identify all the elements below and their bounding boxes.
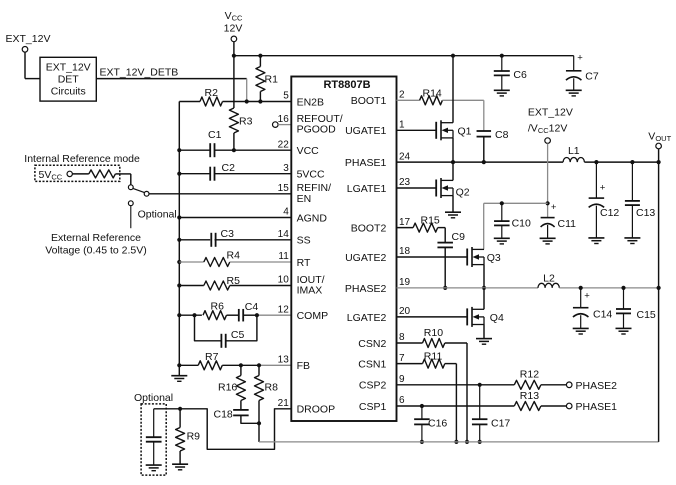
capacitor C10 bbox=[501, 203, 503, 221]
switch contact to REFIN bbox=[144, 191, 149, 196]
svg-text:Optional: Optional bbox=[134, 392, 173, 404]
ground C7 bbox=[566, 89, 582, 91]
wire top 12V rail bbox=[234, 55, 574, 57]
svg-text:R14: R14 bbox=[423, 87, 442, 99]
terminal PHASE2 bbox=[566, 382, 572, 388]
wire AGND line bbox=[179, 217, 291, 219]
svg-text:PGOOD: PGOOD bbox=[297, 124, 337, 136]
resistor R3 bbox=[229, 108, 238, 133]
ground C6 bbox=[494, 89, 510, 91]
wire R10 to rail bbox=[445, 342, 467, 344]
wire Vcc down to R3 bbox=[233, 56, 235, 108]
svg-text:C17: C17 bbox=[491, 417, 510, 429]
capacitor C8 bbox=[477, 130, 492, 132]
svg-text:C15: C15 bbox=[637, 309, 656, 321]
svg-text:14: 14 bbox=[278, 229, 290, 240]
op-amp U1 RT8807B body bbox=[291, 77, 396, 422]
svg-text:Optional: Optional bbox=[138, 209, 177, 221]
inductor L2 bbox=[538, 283, 559, 288]
node bus/RT junction bbox=[177, 260, 181, 264]
wire IOUT right bbox=[230, 285, 291, 287]
wire VCC line bbox=[179, 149, 210, 151]
node R8/C18 junction bbox=[257, 421, 261, 425]
capacitor optional bbox=[153, 409, 155, 437]
wire PHASE2 bbox=[397, 287, 539, 289]
transistor Q3 bbox=[466, 249, 468, 266]
resistor R4 bbox=[204, 258, 230, 267]
svg-text:C13: C13 bbox=[636, 207, 655, 219]
svg-text:7: 7 bbox=[399, 353, 405, 364]
svg-text:DET: DET bbox=[58, 74, 80, 86]
node Q1/PHASE1 junction bbox=[451, 160, 455, 164]
node DROOP/R9 junction bbox=[178, 407, 182, 411]
resistor R6 bbox=[203, 311, 227, 320]
svg-text:+: + bbox=[584, 291, 590, 302]
svg-text:C10: C10 bbox=[512, 218, 531, 230]
node Q1 drain/rail junction bbox=[451, 54, 455, 58]
svg-text:16: 16 bbox=[278, 114, 290, 125]
svg-text:EXT_12V_DETB: EXT_12V_DETB bbox=[100, 67, 179, 79]
wire to switch bbox=[115, 173, 130, 175]
wire CSP1 bbox=[397, 405, 515, 407]
svg-text:17: 17 bbox=[399, 217, 411, 228]
svg-text:LGATE1: LGATE1 bbox=[347, 183, 387, 195]
node CSP2/C17 junction bbox=[478, 383, 482, 387]
wire bbox=[233, 42, 235, 56]
capacitor C17 bbox=[479, 385, 481, 419]
wire external ref stub bbox=[130, 206, 132, 229]
node R3/VCC junction bbox=[232, 148, 236, 152]
svg-text:C14: C14 bbox=[593, 308, 612, 320]
svg-text:C1: C1 bbox=[208, 129, 222, 141]
svg-text:PHASE2: PHASE2 bbox=[345, 283, 387, 295]
resistor R8 bbox=[258, 365, 260, 375]
node bus/5VCC junction bbox=[177, 172, 181, 176]
wire bbox=[24, 52, 26, 79]
svg-text:EXT_12V: EXT_12V bbox=[6, 33, 51, 45]
svg-text:6: 6 bbox=[399, 395, 405, 406]
svg-text:PHASE2: PHASE2 bbox=[576, 380, 618, 392]
node C8/PHASE1 junction bbox=[482, 160, 486, 164]
node R11/rail junction bbox=[454, 440, 458, 444]
resistor R1 bbox=[259, 56, 261, 67]
capacitor C7 bbox=[573, 56, 575, 71]
wire Q1 source bbox=[452, 138, 454, 162]
wire EXT_12V drop bbox=[547, 143, 549, 217]
node C6/rail junction bbox=[500, 54, 504, 58]
svg-text:24: 24 bbox=[399, 151, 411, 162]
svg-text:C4: C4 bbox=[245, 301, 259, 313]
svg-text:R6: R6 bbox=[211, 301, 225, 313]
wire L1 to VOUT bbox=[584, 161, 658, 163]
node C13/VOUT junction bbox=[630, 160, 634, 164]
wire R6-C4 bbox=[227, 314, 239, 316]
svg-text:C2: C2 bbox=[222, 162, 236, 174]
svg-text:R11: R11 bbox=[424, 350, 443, 362]
node L2/right rail junction bbox=[657, 286, 661, 290]
svg-text:UGATE2: UGATE2 bbox=[345, 252, 386, 264]
terminal EXT_12V/Vcc12V bbox=[545, 138, 551, 144]
svg-text:R16: R16 bbox=[218, 381, 237, 393]
wire sense rail bbox=[259, 441, 659, 443]
wire CSN1 lead bbox=[397, 363, 423, 365]
svg-text:R12: R12 bbox=[520, 368, 539, 380]
wire Q3 source bbox=[483, 265, 485, 288]
ground C11 bbox=[540, 237, 556, 239]
ground C15 bbox=[616, 327, 632, 329]
node COMP/C5 right junction bbox=[255, 313, 259, 317]
svg-text:C11: C11 bbox=[558, 218, 577, 230]
svg-text:RT: RT bbox=[297, 257, 311, 269]
svg-text:CSN2: CSN2 bbox=[358, 338, 386, 350]
wire Q2 source bbox=[452, 196, 454, 212]
svg-text:R7: R7 bbox=[205, 351, 219, 363]
ground C10 bbox=[494, 237, 510, 239]
ground R9 bbox=[172, 463, 188, 465]
wire UGATE1 lead bbox=[397, 129, 437, 131]
node C9/PHASE2 junction bbox=[443, 286, 447, 290]
capacitor C9 bbox=[437, 242, 453, 244]
wire AGND bus bbox=[178, 102, 180, 366]
svg-text:C6: C6 bbox=[513, 69, 527, 81]
wire C4-COMP bbox=[243, 314, 257, 316]
capacitor C14 bbox=[580, 288, 582, 308]
capacitor C11 bbox=[541, 217, 555, 219]
inductor L1 bbox=[563, 158, 584, 163]
capacitor C4 bbox=[238, 309, 240, 322]
svg-text:20: 20 bbox=[399, 306, 411, 317]
node bus/COMP junction bbox=[177, 313, 181, 317]
svg-text:SS: SS bbox=[297, 235, 311, 247]
wire VOUT right rail bbox=[658, 149, 660, 442]
node bus/IOUT junction bbox=[177, 283, 181, 287]
node bus/VCC junction bbox=[177, 148, 181, 152]
node bus/FB junction bbox=[177, 363, 181, 367]
svg-text:EN2B: EN2B bbox=[297, 96, 324, 108]
svg-text:22: 22 bbox=[278, 139, 290, 150]
svg-text:CSP2: CSP2 bbox=[359, 380, 387, 392]
node EXT rail/C11 junction bbox=[546, 201, 550, 205]
wire bbox=[72, 173, 88, 175]
wire R11 to rail bbox=[445, 363, 457, 365]
svg-text:EXT_12V: EXT_12V bbox=[46, 62, 91, 74]
svg-text:C3: C3 bbox=[221, 228, 235, 240]
capacitor C12 bbox=[595, 162, 597, 198]
svg-text:External Reference: External Reference bbox=[51, 232, 141, 244]
svg-text:+: + bbox=[600, 182, 606, 193]
svg-text:R2: R2 bbox=[205, 87, 219, 99]
ground C12 bbox=[588, 237, 604, 239]
wire EXT_12V_DETB bbox=[96, 78, 246, 80]
wire IOUT left bbox=[179, 285, 204, 287]
capacitor C2 bbox=[209, 167, 211, 181]
svg-text:IMAX: IMAX bbox=[297, 285, 323, 297]
resistor R14 bbox=[420, 96, 443, 105]
svg-text:R4: R4 bbox=[227, 249, 241, 261]
node R1/EN2B junction bbox=[258, 99, 262, 103]
node bus/AGND junction bbox=[177, 215, 181, 219]
terminal EXT_12V bbox=[22, 47, 28, 53]
wire COMP left bbox=[179, 314, 202, 316]
wire CSP2 bbox=[397, 384, 515, 386]
svg-text:9: 9 bbox=[399, 374, 405, 385]
node Vcc rail junction bbox=[232, 54, 236, 58]
resistor R2 bbox=[200, 97, 223, 106]
wire R3 to VCC pin line bbox=[233, 133, 235, 150]
resistor R9 bbox=[179, 409, 181, 428]
svg-text:12V: 12V bbox=[224, 23, 243, 35]
wire LGATE1 lead bbox=[397, 187, 437, 189]
resistor R16 bbox=[240, 365, 242, 375]
svg-text:C16: C16 bbox=[428, 417, 447, 429]
capacitor C16 bbox=[421, 406, 423, 419]
resistor R10 bbox=[423, 339, 445, 348]
svg-text:Internal Reference mode: Internal Reference mode bbox=[24, 153, 140, 165]
wire Q4 drain bbox=[483, 288, 485, 309]
node VOUT/L1 junction bbox=[657, 160, 661, 164]
node bus/SS junction bbox=[177, 238, 181, 242]
capacitor C3 bbox=[210, 233, 212, 247]
wire CSN2 lead bbox=[397, 342, 423, 344]
node C14/L2out junction bbox=[579, 286, 583, 290]
wire 5VCC line bbox=[179, 173, 210, 175]
node Q3/PHASE2 junction bbox=[482, 286, 486, 290]
wire C18 bottom bbox=[241, 415, 259, 423]
wire Q2 drain bbox=[452, 162, 454, 180]
transistor Q2 bbox=[435, 180, 437, 197]
svg-text:L1: L1 bbox=[568, 145, 580, 157]
ground C14 bbox=[573, 327, 589, 329]
wire REFIN/EN bbox=[149, 193, 291, 195]
capacitor C5 bbox=[220, 334, 222, 348]
wire SS line bbox=[179, 239, 210, 241]
wire C9 to PHASE2 bbox=[444, 247, 446, 288]
svg-text:C12: C12 bbox=[600, 207, 619, 219]
dashed box internal reference bbox=[35, 165, 120, 181]
svg-text:4: 4 bbox=[283, 207, 289, 218]
svg-text:CSP1: CSP1 bbox=[359, 401, 387, 413]
resistor R5 bbox=[204, 281, 230, 290]
svg-text:EXT_12V: EXT_12V bbox=[528, 107, 573, 119]
wire UGATE2 lead bbox=[397, 256, 468, 258]
svg-text:PHASE1: PHASE1 bbox=[576, 401, 618, 413]
switch blade bbox=[133, 188, 145, 192]
wire R15 to C9 bbox=[438, 227, 446, 229]
block EXT_12V DET Circuits bbox=[40, 57, 96, 101]
wire L2 to right rail bbox=[559, 287, 658, 289]
wire RT right bbox=[230, 261, 291, 263]
ground C13 bbox=[624, 237, 640, 239]
svg-text:Circuits: Circuits bbox=[51, 86, 86, 98]
wire Q3 drain drop bbox=[483, 203, 485, 249]
wire Q4 source bbox=[483, 325, 485, 339]
wire RT left bbox=[179, 261, 204, 263]
svg-text:CSN1: CSN1 bbox=[358, 359, 386, 371]
svg-text:+: + bbox=[577, 52, 583, 63]
wire EXT_12V_DETB drop bbox=[246, 79, 248, 102]
node C16/rail junction bbox=[420, 440, 424, 444]
capacitor C18 bbox=[233, 409, 249, 411]
node EN2B junction bbox=[245, 99, 249, 103]
svg-text:UGATE1: UGATE1 bbox=[345, 125, 386, 137]
svg-text:R15: R15 bbox=[421, 214, 440, 226]
svg-text:R3: R3 bbox=[239, 116, 253, 128]
wire R13 to terminal bbox=[541, 405, 567, 407]
wire C5 branch bbox=[195, 315, 222, 341]
svg-text:LGATE2: LGATE2 bbox=[347, 312, 387, 324]
wire DROOP path bbox=[154, 409, 292, 450]
svg-text:R13: R13 bbox=[520, 390, 539, 402]
ground Q4 bbox=[476, 338, 492, 340]
svg-text:18: 18 bbox=[399, 246, 411, 257]
svg-text:EN: EN bbox=[297, 193, 312, 205]
node EXT rail/C10 junction bbox=[500, 201, 504, 205]
svg-text:VCC: VCC bbox=[297, 145, 320, 157]
resistor R15 bbox=[413, 223, 438, 232]
svg-text:19: 19 bbox=[399, 277, 411, 288]
svg-text:L2: L2 bbox=[543, 272, 555, 284]
svg-text:AGND: AGND bbox=[297, 212, 328, 224]
svg-text:FB: FB bbox=[297, 360, 310, 372]
wire LGATE2 lead bbox=[397, 316, 468, 318]
svg-text:2: 2 bbox=[399, 90, 405, 101]
svg-text:C18: C18 bbox=[214, 409, 233, 421]
dashed box optional cap bbox=[141, 404, 166, 475]
svg-text:8: 8 bbox=[399, 332, 405, 343]
switch pivot bbox=[128, 185, 133, 190]
svg-text:15: 15 bbox=[278, 183, 290, 194]
wire C8 to PHASE1 bbox=[483, 137, 485, 163]
wire to sense rail bbox=[258, 423, 260, 442]
capacitor C6 bbox=[501, 56, 503, 71]
resistor R11 bbox=[423, 359, 445, 368]
node R10/rail junction bbox=[465, 440, 469, 444]
svg-text:Q2: Q2 bbox=[456, 187, 470, 199]
svg-text:Voltage (0.45 to 2.5V): Voltage (0.45 to 2.5V) bbox=[45, 244, 147, 256]
resistor R13 bbox=[514, 402, 541, 411]
capacitor C15 bbox=[623, 288, 625, 309]
svg-text:R9: R9 bbox=[187, 431, 201, 443]
wire FB right bbox=[259, 364, 291, 366]
resistor R12 bbox=[514, 380, 541, 389]
svg-text:RT8807B: RT8807B bbox=[323, 79, 370, 91]
node C17/rail junction bbox=[478, 440, 482, 444]
wire R14 to C8 bbox=[442, 99, 483, 101]
svg-text:R10: R10 bbox=[424, 327, 443, 339]
svg-text:C8: C8 bbox=[495, 129, 509, 141]
node FB/R16 junction bbox=[239, 363, 243, 367]
capacitor C1 bbox=[209, 143, 211, 157]
resistor R7 bbox=[198, 361, 222, 370]
wire EN2B bbox=[223, 101, 292, 103]
wire EN2B left corner bbox=[179, 101, 200, 103]
transistor Q4 bbox=[466, 308, 468, 325]
terminal VOUT bbox=[656, 143, 662, 149]
svg-text:C5: C5 bbox=[231, 329, 245, 341]
svg-text:13: 13 bbox=[278, 355, 290, 366]
svg-text:Q1: Q1 bbox=[458, 125, 472, 137]
capacitor C13 bbox=[631, 162, 633, 201]
svg-text:10: 10 bbox=[278, 275, 290, 286]
node FB/R8 junction bbox=[257, 363, 261, 367]
transistor Q1 bbox=[435, 122, 437, 139]
svg-text:23: 23 bbox=[399, 177, 411, 188]
ground optional cap bbox=[146, 464, 162, 466]
svg-text:3: 3 bbox=[283, 163, 289, 174]
node C15/L2out junction bbox=[621, 286, 625, 290]
terminal 5Vcc bbox=[67, 171, 72, 176]
svg-text:PHASE1: PHASE1 bbox=[345, 157, 387, 169]
terminal PHASE1 bbox=[566, 403, 572, 409]
node CSP1/C16 junction bbox=[420, 404, 424, 408]
svg-text:5VCC: 5VCC bbox=[297, 169, 325, 181]
node C12/VOUT junction bbox=[594, 160, 598, 164]
wire R12 to terminal bbox=[541, 384, 567, 386]
svg-text:Q4: Q4 bbox=[490, 312, 504, 324]
wire FB left bbox=[179, 364, 198, 366]
svg-text:R1: R1 bbox=[265, 74, 279, 86]
svg-text:R8: R8 bbox=[265, 381, 279, 393]
wire FB mid bbox=[222, 364, 259, 366]
svg-text:BOOT2: BOOT2 bbox=[351, 223, 387, 235]
terminal Vcc 12V bbox=[231, 36, 237, 42]
node R1 top junction bbox=[258, 54, 262, 58]
svg-text:12: 12 bbox=[278, 304, 290, 315]
terminal REFOUT/PGOOD pin 16 bbox=[273, 122, 279, 128]
svg-text:5: 5 bbox=[283, 91, 289, 102]
wire BOOT1 lead bbox=[397, 99, 420, 101]
svg-text:21: 21 bbox=[278, 398, 290, 409]
switch lower contact bbox=[128, 201, 133, 206]
wire BOOT2 lead bbox=[397, 227, 414, 229]
svg-text:COMP: COMP bbox=[297, 310, 329, 322]
svg-text:11: 11 bbox=[278, 251, 289, 262]
svg-text:C9: C9 bbox=[452, 231, 466, 243]
wire pin 16 stub bbox=[278, 124, 291, 126]
svg-text:Q3: Q3 bbox=[487, 252, 501, 264]
wire Q1 drain bbox=[452, 56, 454, 123]
node COMP/C5 left junction bbox=[192, 313, 196, 317]
svg-text:BOOT1: BOOT1 bbox=[351, 95, 387, 107]
svg-text:+: + bbox=[551, 202, 557, 213]
svg-text:1: 1 bbox=[399, 120, 405, 131]
wire EXT rail bbox=[484, 202, 548, 204]
svg-text:DROOP: DROOP bbox=[297, 404, 336, 416]
ground bus bbox=[178, 365, 180, 375]
ground Q2 bbox=[445, 211, 461, 213]
wire PHASE1 bbox=[397, 161, 564, 163]
svg-text:C7: C7 bbox=[585, 70, 599, 82]
resistor internal ref bbox=[89, 170, 116, 178]
